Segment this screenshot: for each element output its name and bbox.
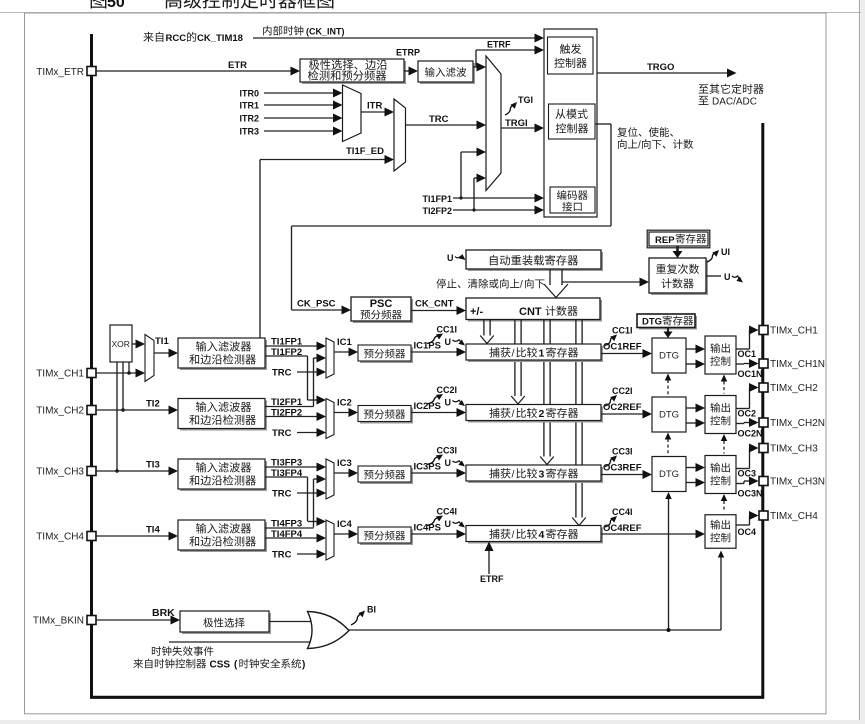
mux IC2 input selector: [326, 399, 334, 439]
label TI1F_ED: [346, 146, 384, 157]
wire ITR from mux to TRC mux: [361, 108, 394, 117]
label TIMx_CH1 left: [36, 369, 84, 380]
svg-text:CC1I: CC1I: [612, 326, 633, 336]
svg-text:PSC: PSC: [370, 298, 393, 310]
svg-text:IC3: IC3: [337, 458, 352, 469]
svg-text:BRK: BRK: [152, 607, 175, 619]
title text 图50 高级控制定时器框图 (clipped at top): [91, 0, 334, 11]
svg-text:RCC: RCC: [166, 33, 187, 44]
svg-text:OC3: OC3: [738, 469, 757, 479]
pin TIMx_CH3 right: [759, 444, 768, 453]
svg-text:TRC: TRC: [272, 428, 292, 439]
wire TI3 pin to input filter: [96, 467, 178, 476]
svg-text:ETRF: ETRF: [487, 40, 511, 50]
label TIMx_CH1N right: [770, 359, 825, 370]
wire XOR output to TI1 mux: [132, 340, 145, 349]
label TIMx_BKIN: [33, 616, 84, 627]
block capture compare register 3 捕获/比较3寄存器: [466, 465, 603, 483]
interrupt zigzag CC2I left: [427, 394, 443, 404]
svg-text:TI2FP2: TI2FP2: [422, 206, 452, 216]
svg-text:TI3FP3: TI3FP3: [271, 458, 302, 469]
svg-text:TIMx_CH3N: TIMx_CH3N: [770, 477, 825, 488]
svg-text:IC2: IC2: [337, 398, 352, 409]
wire TI1FP2 from previous row into mux: [308, 396, 327, 405]
label TI2FP2: [271, 408, 302, 419]
interrupt zigzag TGI: [505, 102, 517, 115]
OR gate clock-fail combine: [308, 612, 350, 649]
label OC2REF: [603, 402, 642, 413]
block PSC prescaler: [351, 297, 413, 323]
wire OC4 to pin: [736, 511, 759, 525]
update event U on IC4PS: [445, 519, 466, 529]
svg-text:TI2: TI2: [146, 399, 160, 410]
label IC3PS: [414, 462, 441, 473]
wire CK_PSC into prescaler: [292, 306, 352, 315]
label OC4REF: [603, 523, 642, 534]
wire TI1FP1 to slave mux: [459, 148, 486, 200]
svg-text:IC1PS: IC1PS: [414, 341, 441, 352]
label ETRF top: [487, 40, 511, 50]
block polarity selection & edge detector & prescaler 极性选择、边沿 检测和预分频器: [300, 59, 406, 84]
pin TIMx_BKIN: [87, 616, 96, 625]
label CK_PSC: [297, 299, 336, 310]
svg-text:TI1FP1: TI1FP1: [422, 194, 452, 204]
block capture compare register 2 捕获/比较2寄存器: [466, 405, 603, 423]
block controller container: [544, 29, 597, 217]
label TI4: [146, 525, 160, 536]
wire TRC into IC3 mux: [297, 489, 326, 498]
label 至其它定时器: [699, 84, 764, 94]
wire OC3 to pin: [736, 444, 759, 469]
block slave mode controller 从模式控制器: [549, 104, 596, 139]
wire BI brake output: [349, 628, 721, 632]
label TI1FP1: [271, 337, 303, 348]
pin TIMx_CH3N right: [759, 477, 768, 486]
svg-text:TIMx_CH1: TIMx_CH1: [36, 369, 84, 380]
svg-text:TIMx_ETR: TIMx_ETR: [36, 67, 84, 78]
wire BRK from pin to polarity block: [96, 616, 180, 625]
pin TIMx_ETR: [87, 67, 96, 76]
wire TRGI from slave mux to slave mode controller: [501, 124, 544, 133]
block capture compare register 1 捕获/比较1寄存器: [466, 344, 603, 362]
label ITR: [367, 101, 382, 112]
wire CK_CNT into counter: [411, 306, 466, 315]
block brake polarity selection 极性选择: [180, 611, 271, 634]
svg-text:4: 4: [539, 529, 545, 541]
label OC3REF: [603, 463, 642, 474]
wires XOR inputs from CH1 CH2 CH3: [115, 362, 131, 473]
label IC2: [337, 398, 352, 409]
label OC4: [738, 527, 757, 537]
svg-text:2: 2: [539, 408, 545, 420]
svg-text:ITR1: ITR1: [239, 101, 259, 111]
label CC1I left: [437, 325, 458, 335]
block auto-reload register 自动重装载寄存器: [466, 250, 603, 271]
pin TIMx_CH4 left: [87, 532, 96, 541]
label TRC row 3: [272, 489, 292, 500]
wire IC2PS to capture register: [411, 408, 466, 417]
svg-text:U: U: [445, 519, 452, 529]
svg-text:TI1FP2: TI1FP2: [271, 347, 302, 358]
svg-text:DTG: DTG: [659, 351, 679, 362]
dashed wire output control column: [721, 375, 728, 511]
block output control 3 输出控制: [705, 456, 736, 494]
horizontal rule under title: [0, 12, 865, 14]
wire OC3REF output: [601, 470, 652, 479]
svg-text:TI1F_ED: TI1F_ED: [346, 146, 384, 157]
wire TI4FP4 into mux: [265, 534, 326, 543]
pin TIMx_CH2N right: [759, 418, 768, 427]
wire IC2 to prescaler: [334, 408, 358, 417]
wire TRGO output: [597, 69, 737, 78]
svg-text:TIMx_CH1: TIMx_CH1: [770, 326, 818, 337]
label TIMx_ETR: [36, 67, 84, 78]
svg-text:TIMx_CH3: TIMx_CH3: [770, 444, 818, 455]
label OC1: [738, 349, 757, 359]
wire OC1 to pin: [736, 326, 759, 350]
label OC3: [738, 469, 757, 479]
svg-text:CC2I: CC2I: [612, 386, 633, 396]
label 来自RCC的CK_TIM18: [143, 32, 243, 44]
pin TIMx_CH4 right: [759, 511, 768, 520]
svg-text:CC4I: CC4I: [612, 507, 633, 517]
svg-text:CK_PSC: CK_PSC: [297, 299, 336, 310]
label TRC row 2: [272, 428, 292, 439]
wire update to repetition counter: [562, 278, 649, 287]
svg-text:OC1: OC1: [738, 349, 757, 359]
label IC3: [337, 458, 352, 469]
svg-text:UI: UI: [721, 247, 730, 257]
label 内部时钟 (CK_INT): [263, 26, 344, 37]
wire ETRF from filter to slave mux and trigger controller: [473, 46, 544, 72]
svg-text:TRC: TRC: [272, 368, 292, 379]
label OC2N: [738, 429, 763, 439]
page bottom strip: [0, 720, 865, 724]
label 时钟失效事件: [152, 646, 214, 656]
mux TRC selector: [394, 99, 406, 171]
svg-text:U: U: [447, 253, 454, 263]
svg-text:TI1: TI1: [155, 336, 169, 347]
page right border lines: [860, 0, 865, 724]
wire TI3FP3 to IC3 mux: [265, 463, 326, 472]
update event U on IC3PS: [445, 458, 466, 468]
block DTG 1 dead-time generator: [652, 338, 686, 373]
svg-text:IC3PS: IC3PS: [414, 462, 441, 473]
svg-text:50: 50: [107, 0, 125, 11]
block repetition counter 重复次数计数器: [649, 258, 708, 295]
svg-text:TRC: TRC: [272, 489, 292, 500]
wire ETR from pin to polarity block: [96, 67, 300, 76]
label TI3FP4: [271, 468, 303, 479]
label 来自时钟控制器 CSS (时钟安全系统): [133, 659, 305, 671]
pin TIMx_CH1 right: [759, 326, 768, 335]
svg-text:TGI: TGI: [518, 95, 533, 105]
svg-text:DAC/ADC: DAC/ADC: [712, 97, 757, 108]
hollow arrow CNT to capture compare 3: [540, 320, 554, 465]
update event U on IC1PS: [445, 337, 466, 347]
svg-text:IC4: IC4: [337, 519, 353, 530]
svg-text:+/-: +/-: [470, 306, 483, 318]
hollow arrow CNT to capture compare 4: [572, 320, 586, 526]
label BRK: [152, 607, 175, 619]
svg-text:TI4: TI4: [146, 525, 160, 536]
label ETRP: [396, 48, 420, 58]
svg-text:TIMx_CH4: TIMx_CH4: [770, 511, 818, 522]
wires DTG2 outputs to output control: [686, 404, 705, 428]
svg-text:U: U: [445, 337, 452, 347]
label OC1REF: [603, 342, 642, 353]
svg-text:TI3FP4: TI3FP4: [271, 468, 303, 479]
label TI4FP4: [271, 529, 303, 540]
label 停止、清除或向上/向下: [436, 279, 544, 291]
svg-text:(: (: [234, 660, 238, 671]
svg-text:TIMx_BKIN: TIMx_BKIN: [33, 616, 84, 627]
svg-text:ETRP: ETRP: [396, 48, 420, 58]
svg-text:ITR2: ITR2: [239, 114, 259, 124]
label TI3: [146, 460, 160, 471]
wire TI1FP2 down to next row: [265, 356, 308, 400]
label TI2: [146, 399, 160, 410]
svg-text:DTG: DTG: [642, 317, 662, 328]
block CNT counter: [466, 298, 602, 322]
svg-text:ETR: ETR: [228, 60, 247, 71]
label ETRF bottom: [480, 574, 504, 584]
wire TI4FP3 from next row into mux: [314, 475, 327, 528]
svg-text:OC3N: OC3N: [738, 489, 763, 499]
svg-text:TI4FP4: TI4FP4: [271, 529, 303, 540]
wires DTG3 outputs to output control: [686, 463, 705, 487]
wire IC1PS to capture register: [411, 348, 466, 357]
label OC2: [738, 409, 757, 419]
interrupt zigzag CC1I left: [427, 334, 443, 344]
label TGI: [518, 95, 533, 105]
svg-text:CC3I: CC3I: [437, 446, 458, 456]
label TRC row 4: [272, 550, 292, 561]
update event U output of repetition counter: [706, 272, 743, 283]
wire TI3FP4 from previous row into mux: [308, 517, 327, 526]
svg-text:OC4: OC4: [738, 527, 757, 537]
wire TI1 mux to input filter 1: [154, 349, 178, 358]
block trigger controller 触发控制器: [548, 37, 594, 74]
svg-text:1: 1: [539, 348, 545, 360]
mux IC4 input selector: [326, 520, 334, 560]
svg-text:OC2: OC2: [738, 409, 757, 419]
label UI: [721, 247, 730, 257]
svg-text:TIMx_CH1N: TIMx_CH1N: [770, 359, 825, 370]
label IC2PS: [414, 401, 441, 412]
pin TIMx_CH1 left: [87, 369, 96, 378]
label TIMx_CH3 right: [770, 444, 818, 455]
svg-text:/: /: [512, 469, 515, 481]
wire TI2FP1 up to previous row: [265, 406, 314, 408]
svg-text:TI2FP1: TI2FP1: [271, 397, 303, 408]
svg-text:TI3: TI3: [146, 460, 160, 471]
wire TI2FP1 from next row into mux: [314, 354, 327, 407]
pin TIMx_CH3 left: [87, 467, 96, 476]
interrupt zigzag CC4I left: [427, 516, 443, 526]
label TIMx_CH3 left: [36, 467, 84, 478]
block input filter & edge detector 4 输入滤波器和边沿检测器: [178, 520, 267, 552]
svg-text:IC1: IC1: [337, 337, 353, 348]
svg-text:TIMx_CH2: TIMx_CH2: [36, 406, 84, 417]
right bus wire (thick vertical): [761, 123, 764, 699]
block output control 2 输出控制: [705, 396, 736, 434]
svg-text:TI2FP2: TI2FP2: [271, 408, 302, 419]
wire IC1 to prescaler: [334, 348, 358, 357]
svg-text:/: /: [520, 280, 523, 291]
svg-text:/: /: [638, 140, 641, 151]
label TI1: [155, 336, 169, 347]
label IC1PS: [414, 341, 441, 352]
block capture prescaler 1 预分频器: [358, 345, 413, 363]
svg-text:ETRF: ETRF: [480, 574, 504, 584]
label TIMx_CH2 left: [36, 406, 84, 417]
label CC4I right: [612, 507, 633, 517]
svg-text:CK_CNT: CK_CNT: [415, 299, 454, 310]
label TIMx_CH4 right: [770, 511, 818, 522]
label TIMx_CH1 right: [770, 326, 818, 337]
mux IC1 input selector: [326, 338, 334, 378]
svg-text:3: 3: [539, 469, 545, 481]
wire polarity block to OR gate: [269, 621, 315, 623]
label TI3FP3: [271, 458, 302, 469]
block input filter & edge detector 3 输入滤波器和边沿检测器: [178, 459, 267, 491]
thick arrow REP register to repetition counter: [673, 246, 683, 258]
svg-text:CK_TIM18: CK_TIM18: [197, 33, 243, 44]
label IC4PS: [414, 523, 441, 534]
mux ITR selector: [343, 85, 362, 142]
label CC3I right: [612, 447, 633, 457]
wire OC2REF output: [601, 410, 652, 419]
block input filter 输入滤波: [418, 61, 475, 84]
svg-text:REP: REP: [655, 235, 675, 246]
label CC4I left: [437, 507, 458, 517]
interrupt zigzag CC1I right: [605, 335, 617, 346]
interrupt zigzag CC3I right: [605, 456, 617, 467]
label IC4: [337, 519, 353, 530]
wire slave controller feedback to CK_PSC: [292, 124, 612, 310]
wire IC4PS to capture register: [411, 530, 466, 539]
svg-text:TRC: TRC: [429, 114, 449, 125]
bottom bus wire (thick horizontal): [90, 696, 764, 699]
update event U on IC2PS: [445, 398, 466, 408]
svg-text:IC2PS: IC2PS: [414, 401, 441, 412]
wire TI1FP1 to encoder interface: [453, 194, 544, 203]
interrupt zigzag CC3I left: [427, 455, 443, 465]
label 至 DAC/ADC: [699, 96, 757, 108]
wire TI2 pin to input filter: [96, 406, 178, 415]
block REP register REP寄存器: [647, 230, 710, 248]
wire CK_INT internal clock line: [253, 34, 544, 43]
svg-text:TIMx_CH2N: TIMx_CH2N: [770, 418, 825, 429]
hollow arrow CNT to capture compare 2: [511, 320, 525, 404]
svg-text:TIMx_CH2: TIMx_CH2: [770, 383, 818, 394]
block capture prescaler 4 预分频器: [358, 527, 413, 545]
dashed wire DTG column: [665, 374, 672, 455]
label TI2FP1: [271, 397, 303, 408]
label 复位、使能、向上/向下、计数: [617, 127, 693, 151]
thick arrow DTG register to DTG1: [664, 328, 673, 339]
label OC3N: [738, 489, 763, 499]
wire TRC into IC2 mux: [297, 428, 326, 437]
wire OC1N to pin: [736, 359, 759, 368]
label TRC top: [429, 114, 449, 125]
wire OC3N to pin: [736, 477, 759, 486]
svg-text:CSS: CSS: [210, 660, 231, 671]
block input filter & edge detector 2 输入滤波器和边沿检测器: [178, 399, 267, 431]
block encoder interface 编码器接口: [550, 187, 595, 213]
label CC1I right: [612, 326, 633, 336]
svg-text:U: U: [445, 458, 452, 468]
wire brake line up into DTG3: [665, 492, 672, 630]
block DTG 3 dead-time generator: [652, 457, 686, 492]
hollow arrow auto-reload to counter: [544, 269, 568, 298]
wire ETRP to input filter: [404, 67, 418, 76]
wire brake line up into output control 4: [718, 551, 725, 631]
block capture compare register 4 捕获/比较4寄存器: [466, 526, 603, 544]
label CC3I left: [437, 446, 458, 456]
hollow arrow CNT to capture compare 1: [480, 320, 494, 344]
svg-text:/: /: [512, 408, 515, 420]
svg-text:(CK_INT): (CK_INT): [306, 27, 345, 37]
block output control 4 输出控制: [705, 515, 736, 549]
pin TIMx_CH2 left: [87, 406, 96, 415]
label BI: [367, 605, 376, 615]
svg-text:CC3I: CC3I: [612, 447, 633, 457]
wires ITR0-ITR3 into ITR mux: [264, 89, 343, 136]
mux slave trigger input selector: [486, 56, 501, 191]
svg-text:XOR: XOR: [112, 339, 130, 349]
svg-text:CC1I: CC1I: [437, 325, 458, 335]
wire TI2FP2 into mux: [265, 412, 326, 421]
mux IC3 input selector: [326, 459, 334, 499]
svg-text:OC2N: OC2N: [738, 429, 763, 439]
wire OC1REF output: [601, 349, 652, 358]
svg-text:U: U: [724, 272, 731, 282]
label TI4FP3: [271, 519, 302, 530]
svg-text:TI1FP1: TI1FP1: [271, 337, 303, 348]
svg-text:ITR3: ITR3: [239, 127, 259, 137]
interrupt zigzag CC4I right: [605, 516, 617, 527]
svg-text:ITR0: ITR0: [239, 89, 259, 99]
label TIMx_CH3N right: [770, 477, 825, 488]
label TIMx_CH2N right: [770, 418, 825, 429]
pin TIMx_CH2 right: [759, 383, 768, 392]
pin TIMx_CH1N right: [759, 359, 768, 368]
block capture prescaler 3 预分频器: [358, 466, 413, 484]
svg-text:IC4PS: IC4PS: [414, 523, 441, 534]
label IC1: [337, 337, 353, 348]
svg-text:TRC: TRC: [272, 550, 292, 561]
block output control 1 输出控制: [705, 336, 736, 374]
svg-text:OC1N: OC1N: [738, 369, 763, 379]
svg-text:CC2I: CC2I: [437, 385, 458, 395]
svg-text:TIMx_CH3: TIMx_CH3: [36, 467, 84, 478]
svg-text:/: /: [512, 529, 515, 541]
svg-text:TRGI: TRGI: [505, 118, 528, 129]
label TI1FP1 encoder: [422, 194, 452, 204]
label TIMx_CH4 left: [36, 532, 84, 543]
label OC1N: [738, 369, 763, 379]
wire TRC from mux to slave mux: [406, 121, 487, 130]
label CK_CNT: [415, 299, 454, 310]
wire ETRF up into capture compare register 4: [485, 542, 494, 575]
svg-text:TIMx_CH4: TIMx_CH4: [36, 532, 84, 543]
svg-text:TRGO: TRGO: [647, 62, 674, 73]
wire TRC into IC4 mux: [297, 550, 326, 559]
wire TI1FP1 to IC1 mux: [265, 342, 326, 351]
wire TIMx_CH1 pin to TI1 mux: [96, 369, 145, 378]
